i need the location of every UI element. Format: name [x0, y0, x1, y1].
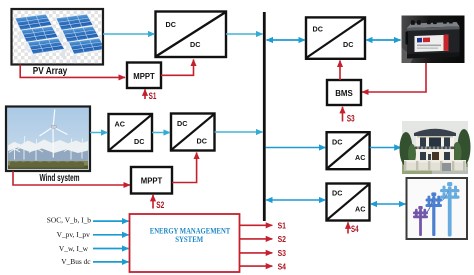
converter DC/AC house: [327, 132, 370, 169]
wire red MPPT1 to PV converter: [161, 60, 194, 76]
S3 control arrow: [342, 107, 344, 122]
svg-text:Wind system: Wind system: [40, 173, 80, 184]
wire red BMS to battery converter: [339, 61, 341, 81]
S4 control arrow: [347, 222, 349, 233]
grid image: [407, 178, 468, 239]
DC bus bar: [263, 12, 266, 221]
svg-text:DC: DC: [134, 137, 144, 146]
svg-text:S1: S1: [149, 91, 157, 101]
wire cyan input 1: [93, 220, 129, 222]
PV array image: [12, 9, 107, 65]
wire red PV to MPPT1: [20, 65, 125, 78]
wire cyan wind DC/DC to bus: [215, 131, 263, 133]
converter DC/AC grid: [327, 184, 370, 221]
energy management system unit: [130, 214, 240, 272]
wire cyan input 4: [93, 261, 129, 263]
wire red EMS output S2: [240, 238, 273, 240]
svg-text:V_pv, I_pv: V_pv, I_pv: [57, 230, 90, 239]
svg-text:S3: S3: [347, 114, 355, 124]
svg-text:S4: S4: [278, 261, 287, 271]
S2 control arrow: [152, 195, 154, 209]
battery image: [402, 16, 465, 64]
svg-text:DC: DC: [343, 40, 353, 49]
svg-text:DC: DC: [332, 189, 342, 198]
svg-text:DC: DC: [197, 137, 207, 146]
svg-text:AC: AC: [355, 153, 365, 162]
svg-text:DC: DC: [313, 25, 323, 34]
wire cyan converter to bus: [226, 33, 263, 35]
svg-text:BMS: BMS: [335, 88, 353, 98]
svg-text:DC: DC: [177, 119, 187, 128]
wind system image: [6, 107, 90, 172]
svg-text:V_Bus dc: V_Bus dc: [61, 257, 91, 266]
svg-text:AC: AC: [115, 120, 125, 129]
wire red EMS output S3: [240, 252, 273, 254]
wire cyan AC/DC to DC/DC: [152, 132, 170, 134]
svg-text:S2: S2: [278, 234, 287, 244]
wire cyan bus to house converter: [266, 147, 326, 149]
wire cyan house converter to house: [370, 147, 401, 149]
S1 control arrow: [144, 89, 146, 99]
svg-text:SYSTEM: SYSTEM: [175, 234, 203, 244]
wire cyan bus-grid converter (bidirectional): [266, 199, 326, 201]
BMS unit: [327, 80, 361, 105]
svg-text:PV Array: PV Array: [33, 66, 68, 77]
svg-text:S2: S2: [156, 200, 164, 210]
wire cyan PV to converter: [103, 33, 155, 35]
wire cyan battery converter-battery (bidirectional): [366, 39, 401, 41]
converter DC/DC PV: [156, 12, 227, 58]
wire cyan input 3: [93, 248, 129, 250]
svg-text:DC: DC: [190, 40, 200, 49]
svg-text:S3: S3: [278, 248, 287, 258]
svg-text:AC: AC: [355, 204, 365, 213]
svg-text:DC: DC: [166, 20, 176, 29]
svg-text:MPPT: MPPT: [133, 71, 155, 81]
svg-text:S4: S4: [351, 224, 359, 234]
wire red MPPT2 to wind DC/DC converter: [172, 153, 197, 183]
MPPT U1: [127, 63, 161, 89]
svg-text:V_w, I_w: V_w, I_w: [59, 244, 89, 253]
svg-text:SOC, V_b, I_b: SOC, V_b, I_b: [47, 215, 92, 224]
converter DC/DC battery: [306, 17, 365, 58]
svg-text:DC: DC: [332, 137, 342, 146]
wire red battery to BMS: [362, 63, 426, 92]
svg-text:MPPT: MPPT: [141, 176, 163, 186]
converter AC/DC wind: [109, 114, 153, 151]
wire red EMS output S4: [240, 265, 273, 267]
wire cyan wind to AC/DC: [90, 132, 108, 134]
svg-text:S1: S1: [278, 221, 287, 231]
MPPT U2: [131, 167, 172, 194]
wire cyan bus-battery converter (bidirectional): [267, 39, 306, 41]
wire red EMS output S1: [240, 224, 273, 226]
wire red wind to MPPT2: [13, 171, 130, 185]
wire cyan grid converter-grid (bidirectional): [371, 203, 406, 205]
wire cyan input 2: [93, 234, 129, 236]
house image: [400, 121, 471, 174]
converter DC/DC wind: [171, 114, 215, 151]
